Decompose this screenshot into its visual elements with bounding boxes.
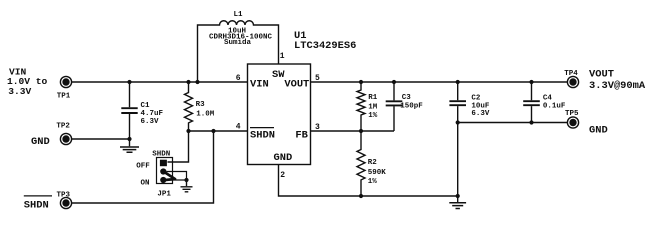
label C3 value <box>400 94 423 110</box>
test point TP1 <box>60 76 71 87</box>
label R2 value <box>368 159 387 186</box>
svg-text:6: 6 <box>236 74 241 83</box>
svg-text:TP1: TP1 <box>57 93 71 101</box>
jumper JP1 shunt <box>164 172 176 181</box>
node SHDN left label <box>24 196 52 212</box>
ground under C2 <box>449 203 466 209</box>
test point TP4 <box>567 76 578 87</box>
svg-text:1.0M: 1.0M <box>196 110 215 118</box>
svg-text:1%: 1% <box>368 112 378 120</box>
svg-text:6.3V: 6.3V <box>471 110 490 118</box>
svg-text:GND: GND <box>589 124 608 136</box>
junction dot R1 bottom FB <box>359 129 363 133</box>
test point TP3 <box>60 197 71 208</box>
wire R3 bottom to JP1 OFF pin <box>168 131 189 162</box>
wire TP3 to SHDN riser <box>72 131 214 203</box>
capacitor C2 <box>457 82 459 202</box>
junction dot R1 top <box>359 80 363 84</box>
svg-text:OFF: OFF <box>136 162 150 170</box>
jumper JP1 pin square OFF <box>160 160 167 167</box>
wire TP2 to C1 ground node <box>72 138 130 140</box>
svg-text:C4: C4 <box>543 95 553 103</box>
svg-text:1M: 1M <box>368 103 378 111</box>
svg-text:0.1uF: 0.1uF <box>543 103 566 111</box>
wire FB pin 3 line <box>311 130 395 132</box>
svg-text:590K: 590K <box>368 169 387 177</box>
label U1 reference <box>294 30 356 52</box>
capacitor C4 <box>531 82 533 123</box>
svg-text:SHDN: SHDN <box>152 151 170 159</box>
label C2 value <box>471 95 490 118</box>
junction dot C1 bottom TP2 <box>127 137 131 141</box>
label L1 value <box>209 11 273 47</box>
junction dot C2 bottom rail <box>456 194 460 198</box>
resistor R3 <box>185 82 193 131</box>
resistor R2 <box>357 131 365 196</box>
jumper JP1 body <box>157 158 173 184</box>
junction dot C2 gnd line <box>456 120 460 124</box>
IC U1 pin names <box>250 69 309 164</box>
svg-text:LTC3429ES6: LTC3429ES6 <box>294 40 356 52</box>
wire JP1 middle pin to ground <box>167 172 187 180</box>
svg-text:C2: C2 <box>471 95 481 103</box>
svg-text:TP4: TP4 <box>564 70 578 78</box>
svg-text:R1: R1 <box>368 94 378 102</box>
svg-text:4: 4 <box>236 122 241 131</box>
wire U1 pin 2 and bottom ground rail <box>279 165 458 197</box>
svg-text:R3: R3 <box>196 101 206 109</box>
svg-text:VIN: VIN <box>250 79 269 91</box>
test point TP2 <box>60 133 71 144</box>
wire GND line C2 to TP5 <box>458 122 568 124</box>
svg-text:5: 5 <box>315 74 320 83</box>
svg-text:ON: ON <box>141 179 150 187</box>
svg-text:2: 2 <box>280 171 285 180</box>
junction dot C3 top <box>392 80 396 84</box>
svg-text:C1: C1 <box>141 102 151 110</box>
svg-text:R2: R2 <box>368 159 378 167</box>
junction dot C1 top <box>127 80 131 84</box>
wire JP1 bottom pin to ground node <box>167 179 187 181</box>
resistor R1 <box>357 82 365 131</box>
ground under JP1 <box>186 180 188 186</box>
wire VIN rail from TP1 to U1 pin 6 <box>72 81 248 83</box>
svg-text:SHDN: SHDN <box>250 129 275 141</box>
svg-text:Sumida: Sumida <box>224 39 252 47</box>
ground under C1 <box>129 139 131 146</box>
svg-text:SW: SW <box>272 69 285 81</box>
label R1 value <box>368 94 378 120</box>
junction dot R2 bottom <box>359 194 363 198</box>
svg-text:TP2: TP2 <box>56 123 70 131</box>
capacitor C1 <box>129 82 131 139</box>
svg-text:3.3V: 3.3V <box>8 86 31 97</box>
wire VOUT rail pin 5 to TP4 <box>311 81 568 83</box>
junction dot SHDN riser <box>211 129 215 133</box>
svg-text:TP3: TP3 <box>57 192 71 200</box>
junction dot C2 top <box>456 80 460 84</box>
jumper JP1 bottom pin <box>160 177 166 183</box>
svg-text:6.3V: 6.3V <box>141 118 160 126</box>
wire SHDN pin 4 line <box>189 130 248 132</box>
svg-text:SHDN: SHDN <box>24 200 49 212</box>
test point TP5 <box>567 117 578 128</box>
junction dot R3 top <box>186 80 190 84</box>
junction dot C4 top <box>529 80 533 84</box>
label R3 value <box>196 101 215 118</box>
svg-text:C3: C3 <box>402 94 412 102</box>
svg-text:JP1: JP1 <box>157 191 171 199</box>
svg-text:3.3V@90mA: 3.3V@90mA <box>589 80 646 92</box>
svg-text:GND: GND <box>31 136 50 148</box>
node VOUT label <box>589 69 646 93</box>
svg-text:150pF: 150pF <box>400 103 423 111</box>
svg-text:GND: GND <box>274 152 293 164</box>
junction dot L1 left leg <box>195 80 199 84</box>
svg-text:TP5: TP5 <box>565 110 579 118</box>
svg-text:FB: FB <box>295 129 308 141</box>
jumper JP1 middle pin <box>160 168 166 174</box>
svg-text:VOUT: VOUT <box>284 79 309 91</box>
svg-text:3: 3 <box>315 123 320 132</box>
node VIN label <box>7 67 48 98</box>
svg-text:L1: L1 <box>233 11 243 19</box>
svg-text:VOUT: VOUT <box>589 69 614 81</box>
inductor L1 with pin 1 riser <box>198 21 279 82</box>
label C4 value <box>543 95 566 111</box>
IC U1 body <box>248 64 311 165</box>
capacitor C3 <box>393 82 395 131</box>
junction dot C4 bottom <box>529 120 533 124</box>
label C1 value <box>141 102 164 126</box>
junction dot JP1 ground <box>184 178 188 182</box>
svg-text:1%: 1% <box>368 178 378 186</box>
svg-text:1: 1 <box>280 52 285 61</box>
jumper JP1 labels <box>136 151 171 199</box>
junction dot R3 bottom <box>186 129 190 133</box>
